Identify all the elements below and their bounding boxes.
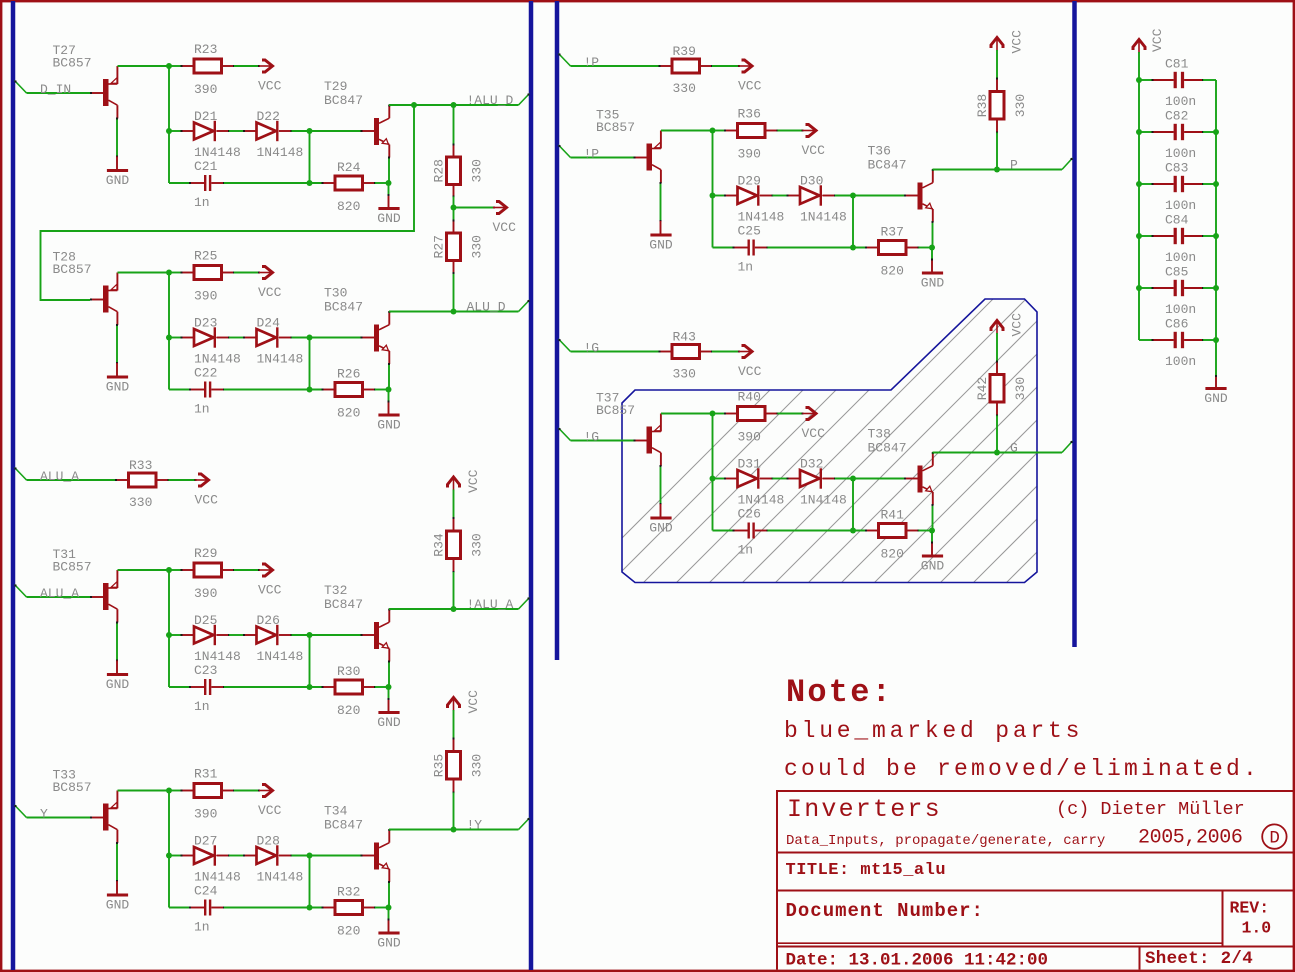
svg-text:C82: C82 (1165, 109, 1188, 124)
wire bus entry !P (559, 54, 571, 67)
wire diode row (713, 195, 726, 197)
junction (994, 450, 1000, 456)
wire diodes to NPN base (292, 337, 362, 339)
junction (1213, 233, 1219, 239)
svg-text:GND: GND (377, 935, 401, 950)
svg-text:C84: C84 (1165, 213, 1189, 228)
wire VCC rail left (1138, 52, 1140, 340)
ground below T27 (107, 169, 128, 172)
power VCC arrow (802, 130, 804, 132)
diode D31 1N4148 (738, 470, 758, 487)
wire R820 to emitter node (375, 389, 389, 391)
junction (1213, 129, 1219, 135)
svg-text:1N4148: 1N4148 (257, 352, 304, 367)
svg-text:blue_marked parts: blue_marked parts (784, 718, 1083, 744)
svg-text:R41: R41 (881, 508, 905, 523)
resistor R37 820 (879, 241, 907, 255)
resistor R24 820 (335, 176, 363, 190)
svg-text:VCC: VCC (466, 690, 481, 714)
resistor R31 390 (194, 784, 222, 798)
junction (850, 476, 856, 482)
wire node to GND (931, 248, 933, 260)
svg-text:330: 330 (470, 533, 485, 556)
power VCC arrow (493, 207, 495, 209)
wire output G (933, 452, 1063, 454)
svg-text:!Y: !Y (467, 818, 483, 833)
wire between diodes (229, 337, 244, 339)
junction (1136, 181, 1142, 187)
power VCC arrow (195, 479, 197, 481)
capacitor C85 100n (1139, 287, 1153, 289)
wire output ALU_D (389, 311, 519, 313)
ground below T31 (107, 673, 128, 676)
svg-text:1N4148: 1N4148 (257, 870, 304, 885)
svg-text:REV:: REV: (1230, 899, 1270, 918)
svg-text:R30: R30 (337, 664, 360, 679)
junction (307, 684, 313, 690)
power VCC arrow (258, 272, 260, 274)
wire feedback !ALU_D to T28 input (41, 105, 415, 300)
wire vertical junction column (168, 66, 170, 183)
svg-text:GND: GND (649, 237, 673, 252)
svg-text:D30: D30 (800, 174, 823, 189)
wire bus entry P (1062, 158, 1073, 170)
power VCC arrow (258, 790, 260, 792)
svg-text:C23: C23 (194, 663, 217, 678)
transistor T38 BC847 (NPN) (905, 478, 918, 480)
svg-text:C25: C25 (738, 224, 761, 239)
junction (307, 632, 313, 638)
wire between diodes (229, 634, 244, 636)
resistor R41 820 (879, 524, 907, 538)
svg-text:T36: T36 (868, 144, 891, 159)
svg-text:GND: GND (106, 897, 130, 912)
svg-text:VCC: VCC (738, 79, 762, 94)
resistor R42 330 (vertical) (990, 375, 1004, 403)
svg-text:ALU_A: ALU_A (40, 586, 79, 601)
wire bus entry !G (559, 339, 571, 352)
transistor T32 BC847 (NPN) (362, 634, 375, 636)
wire diodes to NPN base (835, 195, 905, 197)
wire to VCC (778, 413, 803, 415)
resistor R35 330 (vertical) (447, 752, 461, 780)
svg-text:GND: GND (921, 275, 945, 290)
power VCC arrow (258, 65, 260, 67)
svg-text:330: 330 (470, 159, 485, 182)
wire between diodes (773, 195, 788, 197)
svg-text:R29: R29 (194, 546, 217, 561)
svg-text:C85: C85 (1165, 265, 1188, 280)
wire diodes to NPN base (292, 634, 362, 636)
diode D28 1N4148 (257, 847, 277, 864)
net !G pull-up wire (571, 351, 660, 353)
svg-text:BC847: BC847 (324, 300, 363, 315)
wire emitter to R40 (713, 413, 726, 415)
junction (307, 180, 313, 186)
transistor T29 BC847 (NPN) (362, 130, 375, 132)
wire VCC to R42 (996, 333, 998, 362)
resistor R40 390 (738, 407, 766, 421)
ground (cap bank) (1205, 387, 1226, 390)
svg-text:330: 330 (673, 81, 696, 96)
svg-text:R42: R42 (975, 377, 990, 400)
svg-text:100n: 100n (1165, 250, 1196, 265)
wire cap to R820 (224, 907, 323, 909)
wire emitter row (118, 569, 170, 571)
junction (451, 606, 457, 612)
wire output node to R28 (453, 105, 455, 145)
wire emitter row (118, 65, 170, 67)
junction (386, 684, 392, 690)
junction (386, 905, 392, 911)
wire cap to R820 (224, 182, 323, 184)
svg-text:330: 330 (129, 495, 152, 510)
wire junction column 2 (852, 479, 854, 531)
wire diode row (169, 130, 182, 132)
wire R42 to output node (996, 416, 998, 453)
svg-text:T30: T30 (324, 286, 347, 301)
svg-text:100n: 100n (1165, 94, 1196, 109)
svg-text:1.0: 1.0 (1242, 919, 1272, 938)
svg-text:BC847: BC847 (324, 818, 363, 833)
svg-text:390: 390 (194, 289, 217, 304)
svg-text:100n: 100n (1165, 354, 1196, 369)
net !P pull-up wire (571, 65, 660, 67)
wire bus entry G (1062, 441, 1073, 453)
wire cap to R820 (768, 530, 867, 532)
resistor R28 330 (vertical) (447, 157, 461, 185)
resistor R33 330 (129, 473, 157, 487)
node !G input wire (571, 440, 634, 442)
svg-text:330: 330 (470, 235, 485, 258)
wire vertical junction column (712, 131, 714, 248)
wire emitter row (661, 413, 713, 415)
svg-text:BC857: BC857 (596, 120, 635, 135)
svg-text:T32: T32 (324, 583, 347, 598)
svg-text:1N4148: 1N4148 (257, 145, 304, 160)
wire capacitor row (713, 530, 734, 532)
svg-text:!P: !P (584, 147, 600, 162)
ground below T29 (378, 207, 399, 210)
junction (1136, 285, 1142, 291)
ground below T28 (107, 376, 128, 379)
svg-text:1N4148: 1N4148 (194, 649, 241, 664)
svg-text:330: 330 (470, 754, 485, 777)
svg-text:VCC: VCC (258, 583, 282, 598)
wire to VCC (712, 351, 739, 353)
ground below T34 (378, 932, 399, 935)
svg-text:100n: 100n (1165, 302, 1196, 317)
svg-text:R23: R23 (194, 42, 217, 57)
wire bus entry D_IN (15, 81, 27, 94)
power VCC arrow above R35 (453, 699, 455, 712)
svg-text:D25: D25 (194, 613, 217, 628)
ground below T32 (378, 711, 399, 714)
junction (166, 270, 172, 276)
junction (1136, 129, 1142, 135)
ground below T35 (650, 234, 671, 237)
wire VCC stub (454, 207, 495, 209)
svg-text:330: 330 (1013, 377, 1028, 400)
power VCC arrow (258, 569, 260, 571)
svg-text:GND: GND (649, 520, 673, 535)
svg-text:BC857: BC857 (53, 560, 92, 575)
svg-text:GND: GND (106, 379, 130, 394)
svg-text:GND: GND (106, 677, 130, 692)
svg-text:C86: C86 (1165, 317, 1188, 332)
transistor T30 BC847 (NPN) (362, 337, 375, 339)
wire T37 collector to GND (660, 466, 662, 504)
svg-text:GND: GND (106, 173, 130, 188)
wire NPN emitter to node (388, 158, 391, 184)
svg-text:D26: D26 (257, 613, 280, 628)
svg-text:C81: C81 (1165, 57, 1189, 72)
wire R820 to emitter node (375, 907, 389, 909)
svg-text:R40: R40 (738, 390, 761, 405)
wire cap to R820 (224, 686, 323, 688)
wire rail right (1215, 80, 1217, 376)
wire bus entry !Y (519, 818, 530, 830)
wire diode row (169, 634, 182, 636)
svg-text:VCC: VCC (493, 220, 517, 235)
junction (307, 335, 313, 341)
svg-text:GND: GND (1204, 391, 1228, 406)
junction (1136, 233, 1142, 239)
wire VCC to R34 (453, 490, 455, 519)
junction (386, 180, 392, 186)
power VCC arrow (738, 65, 740, 67)
wire capacitor row (169, 389, 190, 391)
svg-text:Document Number:: Document Number: (786, 900, 984, 922)
svg-text:330: 330 (673, 367, 696, 382)
wire junction column 2 (309, 338, 311, 390)
transistor T33 BC857 (PNP) (92, 817, 104, 819)
svg-text:BC847: BC847 (868, 441, 907, 456)
svg-text:390: 390 (194, 586, 217, 601)
svg-text:R25: R25 (194, 249, 217, 264)
svg-text:R34: R34 (432, 533, 447, 557)
wire node to GND (388, 908, 390, 920)
wire junction column 2 (309, 635, 311, 687)
wire to VCC (712, 65, 739, 67)
wire vertical junction column (712, 414, 714, 531)
diode D23 1N4148 (194, 329, 214, 346)
junction (1136, 77, 1142, 83)
junction (166, 335, 172, 341)
bus line middle-right (inputs column 2) (555, 1, 560, 660)
junction (307, 905, 313, 911)
svg-text:VCC: VCC (195, 493, 219, 508)
junction (1213, 285, 1219, 291)
resistor R36 390 (738, 124, 766, 138)
svg-text:R37: R37 (881, 225, 904, 240)
capacitor C25 1n (748, 240, 750, 256)
svg-text:VCC: VCC (466, 469, 481, 493)
diode D25 1N4148 (194, 627, 214, 644)
svg-text:1N4148: 1N4148 (194, 145, 241, 160)
wire R820 to emitter node (375, 686, 389, 688)
svg-text:VCC: VCC (258, 285, 282, 300)
svg-text:P: P (1010, 158, 1018, 173)
wire node to GND (388, 183, 390, 195)
svg-text:2005,2006: 2005,2006 (1138, 827, 1242, 850)
wire NPN emitter to node (388, 364, 391, 390)
power VCC arrow above R42 (996, 322, 998, 335)
svg-text:C26: C26 (738, 507, 761, 522)
transistor T27 BC857 (PNP) (92, 92, 104, 94)
wire output !ALU_A (389, 608, 519, 610)
wire bus entry !ALU_A (519, 598, 530, 610)
wire to VCC (234, 790, 259, 792)
svg-text:R33: R33 (129, 458, 152, 473)
wire junction column 2 (309, 131, 311, 183)
wire emitter row (118, 272, 170, 274)
svg-text:ALU_A: ALU_A (40, 469, 79, 484)
capacitor C22 1n (204, 382, 206, 398)
svg-text:1N4148: 1N4148 (738, 210, 785, 225)
wire to VCC (234, 272, 259, 274)
wire cap to R820 (224, 389, 323, 391)
svg-text:1n: 1n (738, 260, 754, 275)
wire VCC to R35 (453, 710, 455, 739)
svg-text:R38: R38 (975, 94, 990, 117)
svg-text:1N4148: 1N4148 (800, 493, 847, 508)
resistor R43 330 (672, 345, 700, 359)
wire NPN emitter to node (388, 882, 391, 908)
capacitor C82 100n (1139, 131, 1153, 133)
svg-text:Date: 13.01.2006 11:42:00: Date: 13.01.2006 11:42:00 (786, 951, 1049, 971)
wire VCC to R38 (996, 50, 998, 79)
wire T27 collector to GND (116, 119, 118, 157)
svg-text:D29: D29 (738, 174, 761, 189)
wire R35 to output node (453, 793, 455, 830)
svg-text:Note:: Note: (786, 674, 893, 711)
wire R28 to VCC node (453, 197, 455, 208)
svg-text:1N4148: 1N4148 (194, 352, 241, 367)
svg-text:BC857: BC857 (53, 780, 92, 795)
junction (307, 853, 313, 859)
svg-text:D23: D23 (194, 316, 217, 331)
svg-text:BC847: BC847 (324, 93, 363, 108)
diode D22 1N4148 (257, 123, 277, 140)
ground below T33 (107, 894, 128, 897)
junction (850, 528, 856, 534)
svg-text:1n: 1n (194, 195, 210, 210)
wire emitter to R23 (169, 65, 182, 67)
transistor T34 BC847 (NPN) (362, 855, 375, 857)
wire vertical junction column (168, 570, 170, 687)
svg-text:VCC: VCC (738, 364, 762, 379)
resistor R39 330 (672, 59, 700, 73)
svg-text:820: 820 (337, 703, 360, 718)
svg-text:C83: C83 (1165, 161, 1188, 176)
wire to VCC (778, 130, 803, 132)
wire emitter to R29 (169, 569, 182, 571)
svg-text:D: D (1269, 829, 1280, 849)
wire emitter row (661, 130, 713, 132)
svg-text:390: 390 (738, 430, 761, 445)
bus line left (inputs) (11, 1, 16, 970)
junction (929, 245, 935, 251)
svg-text:VCC: VCC (1010, 30, 1025, 54)
svg-text:G: G (1010, 441, 1018, 456)
capacitor C21 1n (204, 175, 206, 191)
wire output !ALU_D (389, 104, 519, 106)
junction (994, 167, 1000, 173)
svg-text:R24: R24 (337, 160, 361, 175)
wire NPN emitter to node (931, 505, 934, 531)
wire bus entry ALU_A (15, 585, 27, 598)
svg-text:1n: 1n (194, 699, 210, 714)
junction (451, 827, 457, 833)
svg-text:100n: 100n (1165, 146, 1196, 161)
diode D26 1N4148 (257, 627, 277, 644)
wire emitter to R25 (169, 272, 182, 274)
svg-text:1N4148: 1N4148 (738, 493, 785, 508)
wire R820 to emitter node (919, 247, 933, 249)
wire diodes to NPN base (835, 478, 905, 480)
wire vertical junction column (168, 791, 170, 908)
wire T33 collector to GND (116, 843, 118, 881)
ground below T30 (378, 414, 399, 417)
wire node to GND (388, 687, 390, 699)
resistor R29 390 (194, 563, 222, 577)
svg-text:BC857: BC857 (53, 56, 92, 71)
resistor R34 330 (vertical) (447, 531, 461, 559)
svg-text:820: 820 (881, 264, 904, 279)
svg-text:1N4148: 1N4148 (257, 649, 304, 664)
wire node to GND (388, 390, 390, 402)
junction (166, 63, 172, 69)
svg-text:(c) Dieter Müller: (c) Dieter Müller (1056, 799, 1245, 820)
wire T35 collector to GND (660, 183, 662, 221)
wire between diodes (773, 478, 788, 480)
wire bus entry !G (559, 428, 571, 441)
junction (710, 411, 716, 417)
resistor R23 390 (194, 59, 222, 73)
svg-text:D24: D24 (257, 316, 281, 331)
junction (411, 102, 417, 108)
svg-text:Sheet: 2/4: Sheet: 2/4 (1145, 949, 1253, 969)
svg-text:D28: D28 (257, 834, 280, 849)
node D_IN input wire (27, 92, 91, 94)
svg-text:Data_Inputs, propagate/generat: Data_Inputs, propagate/generate, carry (786, 833, 1105, 849)
junction (1213, 181, 1219, 187)
svg-text:390: 390 (194, 82, 217, 97)
svg-text:VCC: VCC (258, 79, 282, 94)
wire to VCC (169, 479, 196, 481)
wire diode row (169, 337, 182, 339)
diode D30 1N4148 (800, 187, 820, 204)
junction (710, 476, 716, 482)
svg-text:R32: R32 (337, 885, 360, 900)
capacitor C23 1n (204, 679, 206, 695)
junction (166, 788, 172, 794)
svg-text:820: 820 (881, 547, 904, 562)
svg-text:!P: !P (584, 55, 600, 70)
capacitor C83 100n (1139, 183, 1153, 185)
wire diodes to NPN base (292, 130, 362, 132)
wire diode row (713, 478, 726, 480)
svg-text:VCC: VCC (1010, 313, 1025, 337)
wire capacitor row (169, 907, 190, 909)
capacitor C24 1n (204, 900, 206, 916)
power VCC arrow (802, 413, 804, 415)
junction (307, 128, 313, 134)
wire emitter to R31 (169, 790, 182, 792)
svg-text:!ALU_D: !ALU_D (467, 93, 514, 108)
svg-text:820: 820 (337, 406, 360, 421)
